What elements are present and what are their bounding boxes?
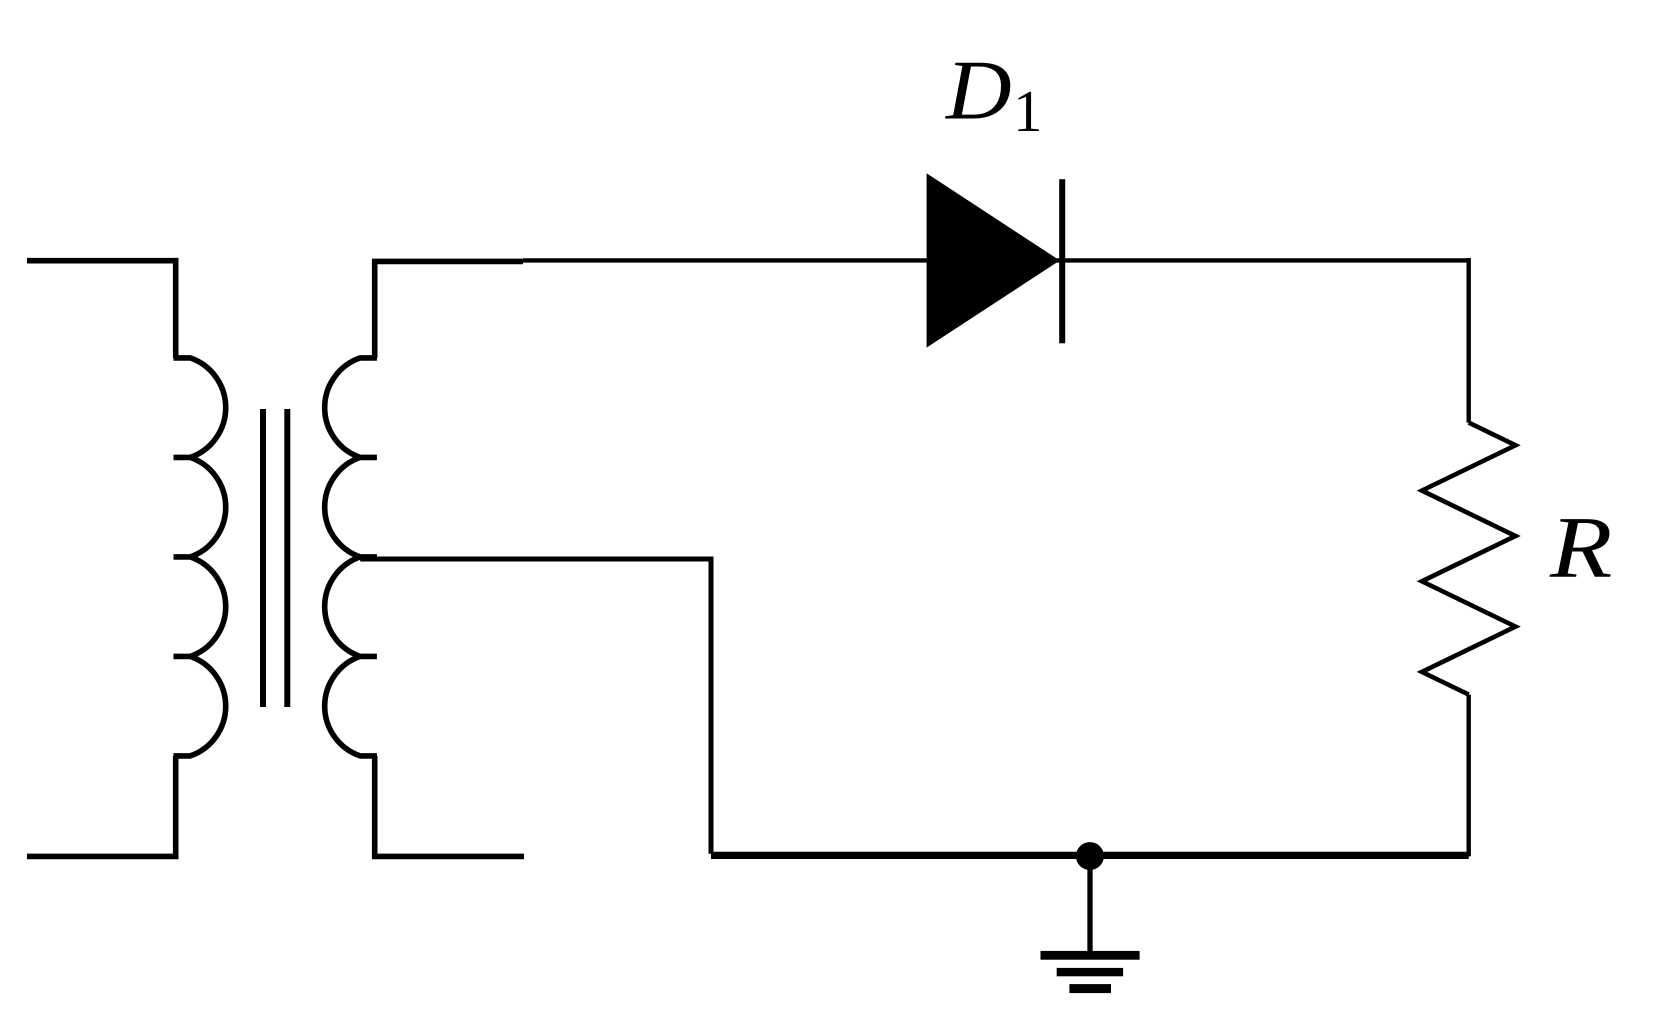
node junction dot [1076,842,1104,870]
wire resistor top lead [1466,258,1470,423]
wire secondary center tap [360,559,711,854]
wire primary top lead [27,261,176,358]
transformer core line 2 [284,409,290,707]
svg-text:R: R [1549,499,1612,597]
svg-text:1: 1 [1013,78,1043,144]
wire bottom from tap corner to resistor [711,852,1469,859]
diode D1 cathode bar [1059,179,1065,343]
ground bar 2 [1057,968,1123,976]
svg-text:D: D [945,44,1012,138]
wire top from tap to resistor [523,258,1469,262]
ground bar 3 [1069,984,1111,993]
transformer core line 1 [260,409,266,707]
wire secondary bottom lead [375,756,524,857]
wire resistor bottom lead [1466,695,1470,857]
diode D1 triangle [927,173,1060,347]
wire secondary top lead [375,261,523,358]
ground bar 1 [1041,951,1140,960]
transformer secondary winding [325,358,377,756]
wire primary bottom lead [27,756,176,857]
transformer primary winding [174,358,226,756]
ground stem [1087,856,1092,955]
resistor R zigzag [1422,423,1516,695]
